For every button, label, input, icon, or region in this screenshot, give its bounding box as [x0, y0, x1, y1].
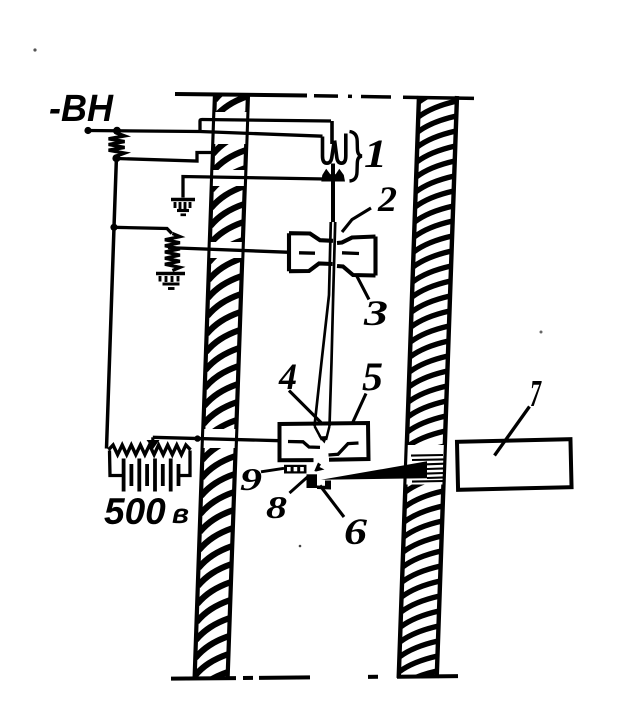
svg-text:6: 6	[344, 512, 368, 553]
svg-text:8: 8	[266, 489, 287, 525]
svg-text:1: 1	[364, 131, 387, 176]
svg-text:4: 4	[278, 357, 297, 398]
svg-text:2: 2	[377, 179, 397, 219]
svg-text:-ВН: -ВН	[49, 88, 114, 130]
svg-text:9: 9	[240, 461, 262, 497]
svg-text:3: 3	[363, 293, 388, 333]
svg-text:7: 7	[530, 373, 542, 415]
svg-text:в: в	[172, 498, 189, 529]
svg-text:500: 500	[104, 491, 166, 532]
svg-text:5: 5	[362, 354, 383, 399]
